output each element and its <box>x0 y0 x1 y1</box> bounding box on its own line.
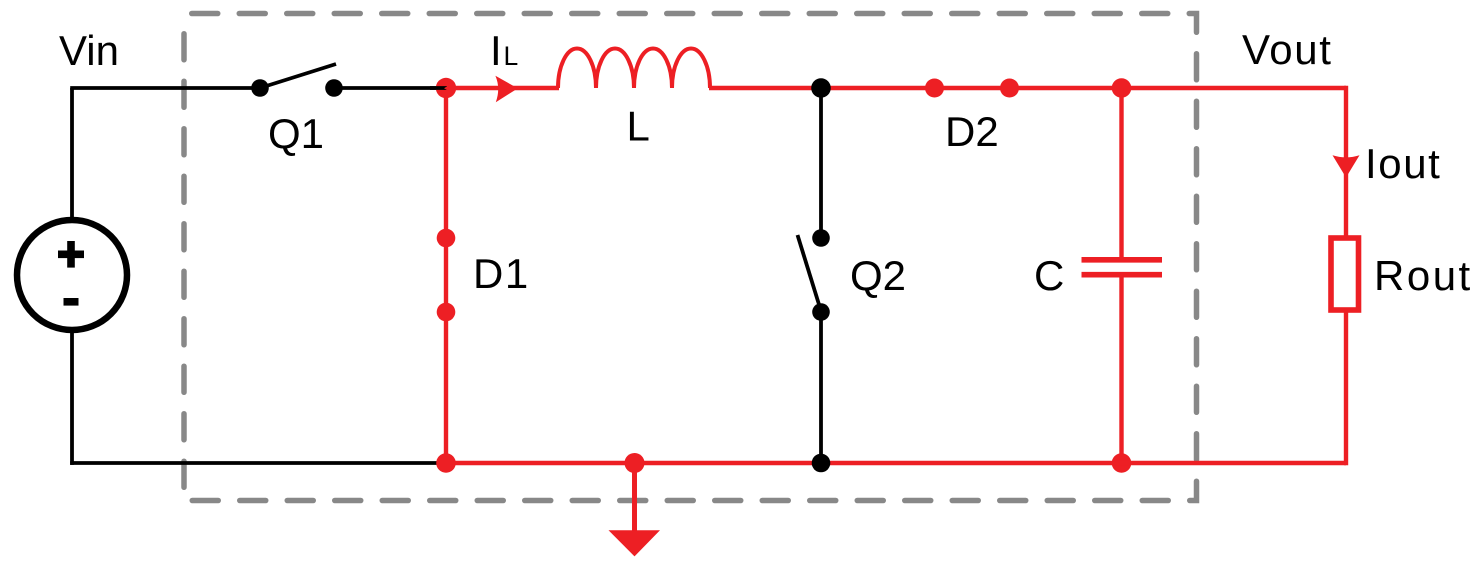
wire Q1 to node A <box>334 86 447 90</box>
svg-text:D2: D2 <box>945 108 999 155</box>
ground node <box>625 453 645 473</box>
svg-text:C: C <box>1034 252 1064 299</box>
voltage source minus sign <box>64 298 79 306</box>
diode D2 right contact <box>1000 79 1019 98</box>
wire right vertical upper (corner to Rout) <box>1344 88 1346 236</box>
wire inductor to corner (red top) <box>709 86 1346 90</box>
svg-text:D1: D1 <box>473 250 530 297</box>
svg-text:Vin: Vin <box>59 27 119 74</box>
switch Q1 right contact <box>325 79 343 97</box>
switch Q1 left contact <box>251 79 269 97</box>
wire Vin bottom stub <box>70 330 74 465</box>
inductor L <box>558 49 710 89</box>
svg-text:Vout: Vout <box>1242 26 1332 73</box>
node D1 bottom junction <box>436 453 456 473</box>
node C top (capacitor junction) <box>1112 78 1132 98</box>
wire capacitor top (red vertical) <box>1119 88 1123 260</box>
svg-text:Iout: Iout <box>1365 140 1441 187</box>
wire bottom black (source to node D1-bottom) <box>70 461 446 465</box>
wire right vertical lower (Rout to bottom corner) <box>1344 312 1346 463</box>
diode D1 branch wire (red vertical) <box>444 88 448 463</box>
red notch at node A <box>444 85 449 91</box>
wire node A to inductor (red) <box>446 86 559 90</box>
ground arrow <box>609 530 661 556</box>
node B <box>811 78 831 98</box>
svg-text:L: L <box>504 41 519 71</box>
wire Q2 to bottom (black vertical) <box>819 312 823 463</box>
wire Q1 to node A overlap <box>430 86 447 90</box>
switch Q2 bottom contact <box>812 303 830 321</box>
wire bottom red (node D1-bottom to right corner) <box>446 461 1346 465</box>
svg-text:Q2: Q2 <box>850 252 906 299</box>
wire node B to Q2 (black vertical) <box>819 88 823 238</box>
svg-text:Q1: Q1 <box>268 110 324 157</box>
current arrow IL <box>495 76 517 103</box>
switch Q2 lever <box>798 235 822 311</box>
node capacitor bottom junction <box>1112 453 1132 473</box>
voltage source plus sign <box>58 241 84 268</box>
diode D1 bottom contact <box>437 303 456 322</box>
wire capacitor bottom (red vertical) <box>1119 275 1123 463</box>
switch Q2 top contact <box>812 229 830 247</box>
converter boundary dashed box <box>184 14 1197 501</box>
node Q2 bottom junction <box>812 454 831 473</box>
wire Vin top stub <box>70 88 74 221</box>
wire top black (Vin to Q1) <box>70 86 260 90</box>
svg-text:Rout: Rout <box>1374 252 1473 299</box>
capacitor C bottom plate <box>1082 272 1163 278</box>
ground stub wire <box>632 463 637 531</box>
diode D1 top contact <box>437 229 456 248</box>
current arrow Iout <box>1333 155 1360 177</box>
diode D2 left contact <box>925 79 944 98</box>
svg-text:I: I <box>490 27 502 74</box>
resistor Rout <box>1331 238 1359 310</box>
node A <box>436 78 456 98</box>
svg-text:L: L <box>627 103 650 150</box>
switch Q1 lever <box>260 64 336 88</box>
voltage source Vin circle <box>17 220 127 330</box>
capacitor C top plate <box>1082 257 1163 263</box>
